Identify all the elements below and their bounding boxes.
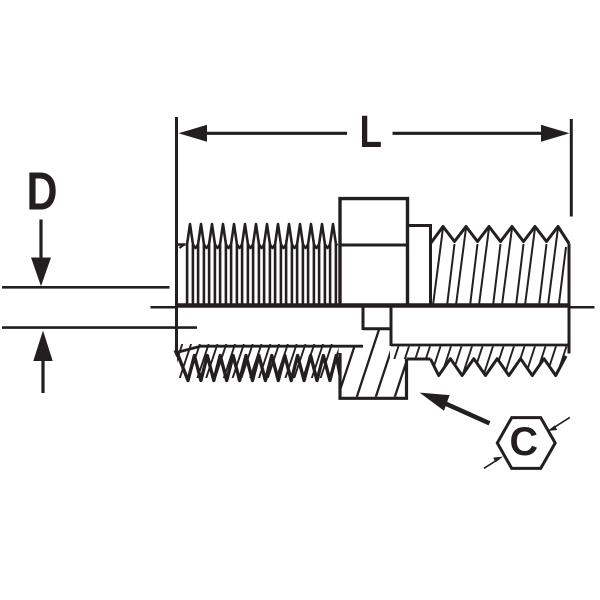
bore stop shoulder line	[363, 327, 391, 330]
left straight thread teeth (top half)	[187, 224, 336, 304]
svg-text:C: C	[510, 420, 539, 464]
centerline stub left	[151, 306, 177, 309]
hex section outline (bottom half, sectioned)	[340, 353, 407, 398]
NPT thread root profile (bottom section)	[431, 356, 567, 376]
right end face	[568, 244, 571, 354]
L dimension line left segment	[205, 132, 347, 135]
shoulder (top half)	[408, 226, 431, 307]
shoulder bottom notch line	[407, 358, 431, 361]
centerline stub right	[570, 306, 595, 309]
hex chamfer line	[341, 244, 407, 247]
section parting line (thick)	[176, 303, 571, 308]
NPT thread crest (top half)	[431, 227, 570, 244]
svg-text:D: D	[27, 163, 58, 222]
left straight thread root notches	[179, 244, 337, 248]
left end bottom corner	[174, 351, 180, 358]
L left arrowhead	[179, 125, 208, 142]
across-flats tick upper right	[554, 417, 570, 427]
hex section outline (top half)	[340, 199, 408, 306]
bore stop web left face	[362, 307, 365, 330]
D lower extension line	[2, 326, 197, 329]
NPT thread flank lines (top half)	[433, 228, 566, 304]
bore stop web right face	[390, 307, 393, 346]
right bore wall	[391, 344, 569, 347]
D upper arrow (pointing down)	[39, 220, 42, 261]
across-flats tick lower left	[484, 458, 500, 468]
D upper extension line	[2, 286, 170, 289]
D lower arrow (pointing up)	[33, 331, 52, 362]
L extension line right	[570, 119, 573, 217]
svg-text:L: L	[360, 106, 383, 157]
hex balloon	[497, 418, 555, 469]
left bore wall	[177, 346, 364, 352]
L right arrowhead	[541, 125, 570, 142]
L dimension line right segment	[393, 132, 542, 135]
left thread runout step	[177, 243, 186, 246]
left end face + L extension line left	[175, 117, 178, 353]
leader arrow to wrench flats	[446, 404, 490, 424]
